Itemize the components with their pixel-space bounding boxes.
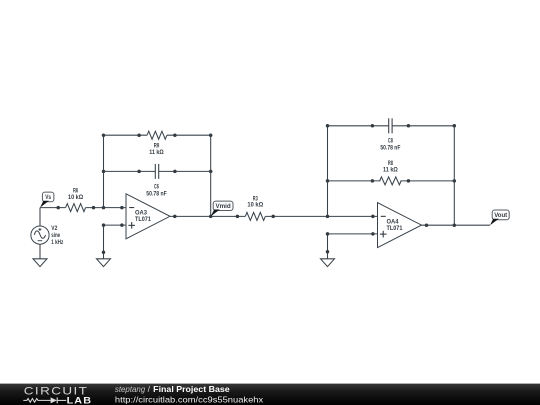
node Vout tag: [490, 210, 509, 225]
op-amp OA4: [378, 203, 422, 248]
wire OA3 non-inverting input to ground: [102, 223, 126, 258]
junction: stage2 feedback left vertical at inverting input: [326, 126, 330, 218]
wire top rail to resistor R9: [102, 133, 147, 137]
svg-text:10 kΩ: 10 kΩ: [247, 202, 263, 209]
svg-text:C8: C8: [388, 138, 393, 145]
wire C8 to top-right corner: [392, 124, 456, 128]
wire C6 to right vertical: [159, 170, 213, 174]
wire mid rail left to resistor R8: [326, 179, 381, 183]
svg-text:11 kΩ: 11 kΩ: [149, 149, 164, 156]
wire R3 to op-amp OA4 inverting input: [265, 215, 377, 219]
svg-text:LAB: LAB: [67, 395, 93, 405]
svg-text:TL071: TL071: [387, 225, 403, 232]
wire R8 to right vertical: [400, 179, 456, 183]
CircuitLab logo: CIRCUIT wordmark: [24, 385, 89, 397]
svg-text:steptang: steptang: [115, 384, 146, 394]
wire mid rail left to capacitor C6: [102, 170, 156, 174]
svg-text:10 kΩ: 10 kΩ: [68, 194, 84, 201]
svg-text:Vs: Vs: [45, 194, 51, 201]
value label R9 11 kΩ: [149, 143, 164, 156]
svg-text:V2: V2: [51, 225, 57, 232]
wire V2 top lead to node Vs: [39, 208, 41, 226]
voltage source V2 (sine, 1 kHz): [31, 226, 49, 244]
node Vmid tag: [211, 201, 233, 216]
wire OA4 non-inverting input to ground: [326, 232, 378, 259]
wire stage2 feedback right vertical down to output: [453, 126, 455, 225]
footer title: steptang / Final Project Base: [115, 384, 230, 394]
svg-text:11 kΩ: 11 kΩ: [383, 166, 398, 173]
wire R6 to op-amp OA3 inverting input: [86, 206, 126, 210]
svg-text:50.78 nF: 50.78 nF: [380, 145, 400, 152]
value label OA3 TL071: [135, 210, 151, 224]
resistor R3: [245, 212, 265, 220]
ground (OA3 non-inverting input): [97, 259, 111, 267]
footer bar: [0, 384, 540, 405]
svg-text:Vout: Vout: [494, 212, 508, 219]
svg-text:Vmid: Vmid: [215, 203, 230, 210]
wire OA3 output to node Vmid and resistor R3: [170, 215, 245, 219]
CircuitLab logo: LAB wordmark: [67, 395, 93, 405]
wire feedback right vertical down to output: [210, 135, 212, 216]
wire top rail to capacitor C8: [326, 124, 389, 128]
capacitor C6 (feedback): [155, 164, 158, 179]
svg-text:50.78 nF: 50.78 nF: [146, 190, 166, 197]
wire V2 bottom lead to ground: [39, 244, 41, 259]
value label R8 11 kΩ: [383, 160, 398, 173]
junction: feedback left vertical at inverting input: [102, 135, 106, 209]
footer url: [115, 394, 264, 404]
wire R9 to top-right corner: [167, 133, 213, 137]
resistor R6: [66, 204, 86, 212]
value label R6 10 kΩ: [68, 188, 84, 201]
value label V2 sine 1 kHz: [51, 225, 63, 246]
value label OA4 TL071: [387, 218, 403, 232]
resistor R9 (feedback): [147, 131, 167, 139]
svg-text:Final Project Base: Final Project Base: [153, 384, 230, 394]
svg-text:TL071: TL071: [135, 216, 151, 223]
ground (V2): [33, 259, 47, 267]
node Vs tag: [40, 192, 54, 208]
ground (OA4 non-inverting input): [321, 259, 335, 267]
op-amp OA3: [126, 194, 170, 239]
wire node Vs to resistor R6: [40, 206, 66, 210]
wire OA4 output to node Vout: [422, 223, 491, 227]
CircuitLab logo: resistor-diode squiggle: [23, 397, 66, 403]
value label R3 10 kΩ: [247, 195, 263, 208]
capacitor C8 (feedback): [389, 118, 392, 133]
svg-text:http://circuitlab.com/cc9s55nu: http://circuitlab.com/cc9s55nuakehx: [115, 394, 264, 404]
value label C6 50.78 nF: [146, 184, 166, 198]
value label C8 50.78 nF: [380, 138, 400, 152]
svg-text:1 kHz: 1 kHz: [51, 239, 63, 246]
resistor R8 (feedback): [380, 177, 402, 185]
